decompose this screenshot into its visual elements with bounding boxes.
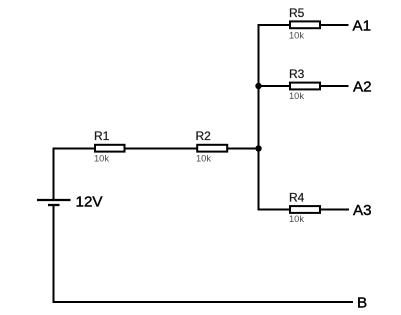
wire: battery - plate down to bottom rail	[53, 205, 55, 303]
resistor R5	[290, 21, 320, 28]
svg-text:A2: A2	[353, 78, 372, 95]
svg-text:R3: R3	[289, 67, 305, 81]
wire: bottom rail to terminal B	[53, 301, 354, 303]
svg-text:10k: 10k	[289, 31, 304, 41]
junction node: branch vertical with main wire	[255, 145, 261, 151]
battery V1 12V	[37, 200, 71, 205]
resistor R4	[290, 206, 320, 213]
wire: branch vertical from R5 corner down to R4 corner	[258, 24, 260, 211]
resistor R2	[197, 145, 227, 152]
resistor R1	[95, 145, 125, 152]
wire: middle branch to R3 and terminal A2	[258, 85, 349, 87]
svg-text:10k: 10k	[94, 154, 109, 164]
svg-text:R1: R1	[94, 129, 110, 143]
wire: main horizontal from battery to branch junction	[53, 148, 260, 150]
svg-text:12V: 12V	[76, 193, 104, 210]
resistor R3	[290, 83, 320, 90]
svg-text:R5: R5	[289, 6, 305, 20]
svg-text:10k: 10k	[289, 214, 304, 224]
svg-text:B: B	[357, 295, 367, 312]
wire: bottom branch to R4 and terminal A3	[258, 209, 350, 211]
svg-text:R4: R4	[289, 191, 305, 205]
wire: top branch to R5 and terminal A1	[258, 24, 349, 26]
svg-text:R2: R2	[196, 129, 212, 143]
svg-text:10k: 10k	[289, 91, 304, 101]
svg-text:10k: 10k	[196, 154, 211, 164]
svg-text:A3: A3	[353, 202, 372, 219]
svg-text:A1: A1	[353, 17, 372, 34]
junction node: branch vertical with R3 wire	[255, 83, 261, 89]
wire: left vertical, main wire down to battery + plate	[53, 148, 55, 200]
